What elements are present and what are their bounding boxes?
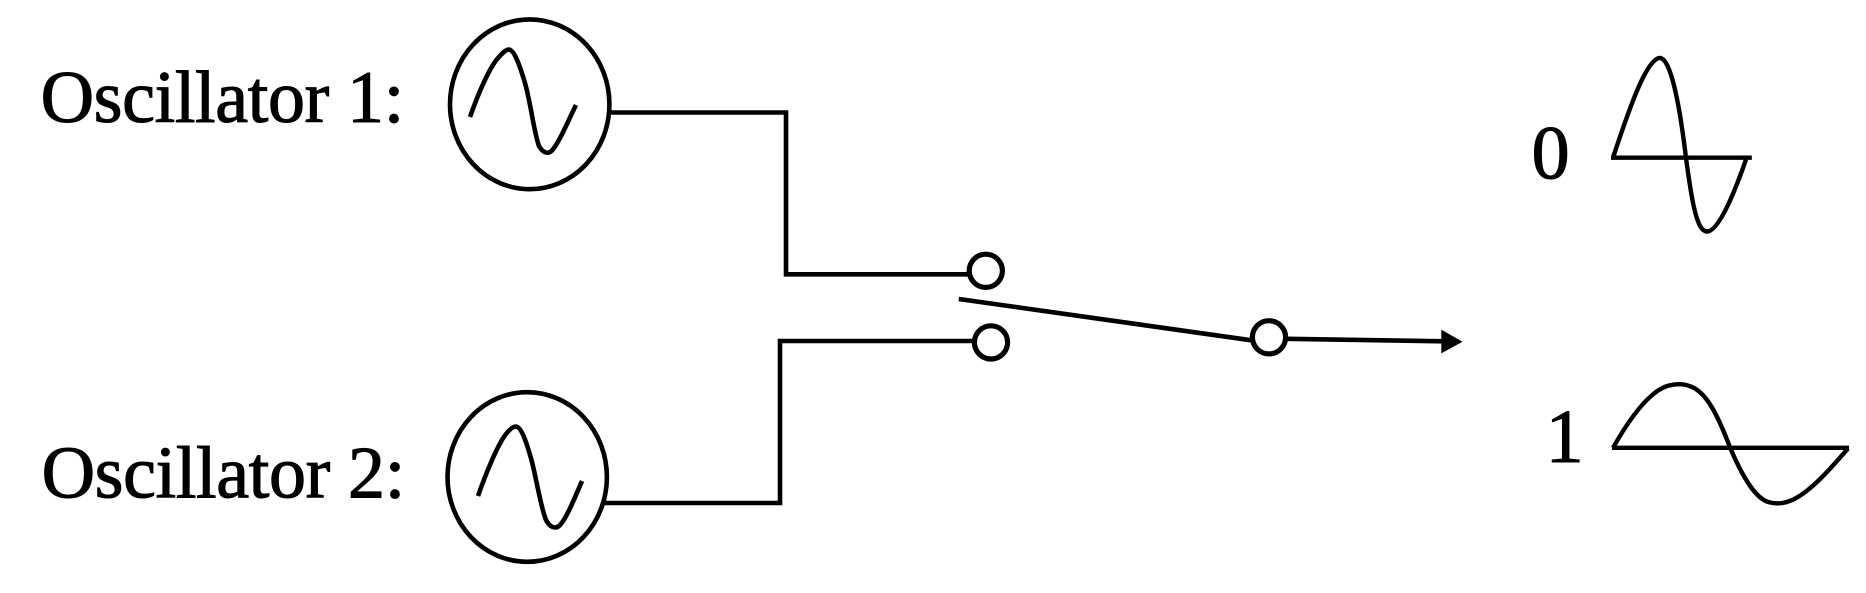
svg-text:Oscillator 2:: Oscillator 2:	[42, 433, 405, 515]
oscillator source OSC2	[448, 392, 607, 562]
oscillator source OSC1	[450, 19, 609, 189]
output wire	[1286, 339, 1444, 342]
svg-text:Oscillator 1:: Oscillator 1:	[41, 57, 404, 139]
svg-text:0: 0	[1532, 112, 1570, 196]
switch upper throw contact	[969, 254, 1002, 287]
wire from OSC1 to switch upper throw	[607, 113, 970, 275]
output arrowhead	[1441, 330, 1462, 354]
svg-text:1: 1	[1546, 395, 1584, 479]
waveform 1 sine	[1613, 384, 1848, 503]
switch lower throw contact	[974, 326, 1007, 359]
switch pole contact	[1252, 321, 1285, 354]
waveform 1 axis	[1612, 446, 1849, 450]
wire from OSC2 to switch lower throw	[602, 341, 974, 503]
waveform 0 axis	[1611, 155, 1752, 159]
waveform 0 sine	[1613, 58, 1746, 232]
switch lever	[959, 299, 1252, 340]
